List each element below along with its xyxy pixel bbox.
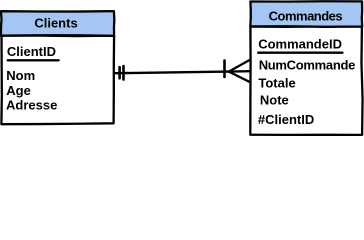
underline of CommandeID — [258, 52, 342, 54]
entity Clients header box — [1, 11, 114, 36]
svg-text:Totale: Totale — [258, 75, 295, 90]
crow's foot middle prong — [229, 70, 249, 73]
relationship line Clients-Commandes — [115, 72, 229, 74]
svg-text:Nom: Nom — [6, 68, 35, 83]
crow's foot bottom prong — [229, 72, 249, 82]
svg-text:ClientID: ClientID — [7, 44, 56, 59]
cardinality one tick 1 (left end) — [118, 67, 121, 78]
svg-text:Adresse: Adresse — [6, 98, 57, 113]
svg-text:Commandes: Commandes — [269, 8, 343, 23]
svg-text:Age: Age — [6, 83, 31, 98]
crow's foot top prong — [229, 60, 249, 71]
svg-text:CommandeID: CommandeID — [258, 36, 342, 51]
entity Commandes header box — [250, 1, 362, 27]
svg-text:Note: Note — [260, 93, 289, 108]
underline of ClientID — [8, 59, 59, 61]
entity Commandes body box — [250, 26, 362, 135]
entity Clients body box — [1, 36, 114, 125]
svg-text:#ClientID: #ClientID — [258, 112, 314, 127]
svg-text:NumCommande: NumCommande — [259, 58, 355, 73]
svg-text:Clients: Clients — [34, 15, 77, 30]
cardinality one tick (right end) — [223, 61, 226, 77]
cardinality one tick 2 (left end) — [122, 66, 125, 80]
